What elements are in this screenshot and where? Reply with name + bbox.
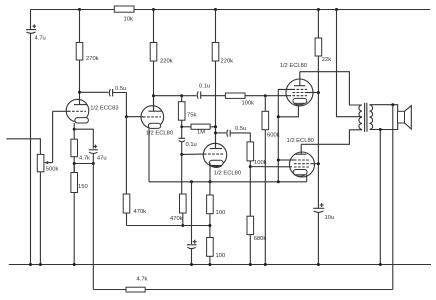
capacitor cathode bypass <box>191 182 193 244</box>
svg-text:0.5u: 0.5u <box>115 86 126 92</box>
node 100k bottom <box>249 165 252 168</box>
wire cap to tube2 grid node <box>113 93 127 117</box>
node tube2 anode <box>152 94 155 97</box>
svg-text:1M: 1M <box>197 130 205 136</box>
node top rail / 220k a <box>152 8 155 11</box>
node secondary bottom branch <box>379 128 382 131</box>
transformer T1 primary <box>359 105 362 129</box>
node top rail / B+ tap <box>335 8 338 11</box>
svg-text:270k: 270k <box>86 56 99 62</box>
speaker LS1 <box>398 111 405 123</box>
svg-text:100: 100 <box>216 253 226 259</box>
wire tube2 cathode drop <box>148 128 150 181</box>
node tube1 cathode <box>73 128 76 131</box>
wire ground bottom rail <box>9 264 431 266</box>
resistor 220k second <box>215 10 217 43</box>
node secondary top branch <box>391 103 394 106</box>
svg-text:470k: 470k <box>134 209 147 215</box>
resistor 220k first <box>153 10 155 43</box>
node inverter grid <box>180 153 183 156</box>
node screen a <box>317 91 320 94</box>
node secondary / rail <box>379 263 382 266</box>
svg-text:1/2 ECC83: 1/2 ECC83 <box>90 106 118 112</box>
wire to tube4 grid <box>265 95 291 97</box>
resistor 100k grid leak lower output tube <box>247 142 254 161</box>
svg-text:22k: 22k <box>322 57 331 63</box>
capacitor 0.1u coupling b <box>197 91 198 98</box>
wire secondary top <box>370 105 398 112</box>
tube pentode U5 1/2 ECL80 lower output <box>290 152 315 177</box>
node 600k / rail <box>264 263 267 266</box>
capacitor 47u <box>89 149 98 151</box>
wire input line <box>6 139 40 155</box>
svg-text:10u: 10u <box>325 215 335 221</box>
resistor 1M <box>182 126 191 128</box>
resistor 75k <box>178 102 185 121</box>
node tube1 anode <box>78 91 81 94</box>
wire tube5 grid lead <box>250 166 292 168</box>
wire tube3 grid lead <box>182 153 204 155</box>
node 0.5u junction on anode line <box>214 131 217 134</box>
resistor 100k horizontal <box>225 93 245 98</box>
tube triode U3 1/2 ECL80 inverter <box>203 143 226 166</box>
node 680k / rail <box>249 263 252 266</box>
node 1M right / tube3 anode <box>214 125 217 128</box>
svg-text:100k: 100k <box>254 160 267 166</box>
node output tubes cathode <box>277 180 280 183</box>
svg-text:10k: 10k <box>124 16 133 22</box>
node bypass cap top <box>190 180 193 183</box>
resistor 270k <box>79 10 81 43</box>
capacitor 0.5u coupling a <box>109 89 110 96</box>
wire tube5 suppressor tie <box>278 159 294 161</box>
wire tube5 anode to transformer <box>301 130 362 145</box>
wire cathode bus <box>149 181 307 183</box>
svg-text:100: 100 <box>216 210 226 216</box>
node tube4 cathode tie <box>277 115 280 118</box>
resistor 470k first (tube2 grid leak) <box>125 117 127 194</box>
resistor 4.7k cathode <box>73 129 75 139</box>
wire cathode node <box>74 129 93 148</box>
tube pentode U4 1/2 ECL80 upper output <box>286 79 313 106</box>
capacitor 4.7u electrolytic <box>26 29 36 31</box>
svg-text:4.7k: 4.7k <box>137 277 148 283</box>
node screen b <box>317 162 320 165</box>
wire tube4 suppressor tie <box>278 89 292 181</box>
node 100 / rail <box>208 263 211 266</box>
node 4.7k bottom <box>73 162 76 165</box>
node 100 junction <box>208 224 211 227</box>
svg-text:100k: 100k <box>242 100 255 106</box>
svg-text:0.1u: 0.1u <box>186 142 197 148</box>
tube triode U2 1/2 ECL80 <box>141 106 164 129</box>
node 1M left <box>180 125 183 128</box>
svg-text:1/2 ECL80: 1/2 ECL80 <box>214 171 241 177</box>
transformer T1 secondary <box>370 105 373 129</box>
resistor 150 <box>73 164 75 173</box>
node 150 / rail <box>73 263 76 266</box>
svg-text:75k: 75k <box>187 112 196 118</box>
svg-text:1/2 ECL80: 1/2 ECL80 <box>146 131 173 137</box>
wire B+ center tap line <box>337 10 363 117</box>
svg-text:220k: 220k <box>221 59 234 65</box>
node 470k second / bias wire <box>181 224 184 227</box>
capacitor 0.1u to inverter grid <box>179 137 186 139</box>
resistor 600k <box>264 96 266 112</box>
node tube2 grid <box>125 115 128 118</box>
svg-text:150: 150 <box>78 184 88 190</box>
svg-text:0.5u: 0.5u <box>235 126 246 132</box>
svg-text:4.7k: 4.7k <box>79 156 90 162</box>
node top rail / 220k b <box>214 8 217 11</box>
wire feedback line <box>93 289 126 291</box>
node 75k top <box>180 94 183 97</box>
capacitor 10u screen decoupling <box>313 207 324 209</box>
node tube3 cathode / 100 chain <box>209 180 212 183</box>
svg-text:1/2 ECL80: 1/2 ECL80 <box>280 63 307 69</box>
svg-text:220k: 220k <box>160 59 173 65</box>
wire B+ top rail <box>31 9 431 11</box>
capacitor 0.5u coupling c <box>216 132 227 134</box>
wire secondary bottom <box>370 123 398 130</box>
resistor 10k <box>114 6 134 12</box>
wire feedback riser <box>392 105 394 290</box>
node 47u bottom / feedback <box>92 162 95 165</box>
wire 75k node to cap <box>182 95 197 97</box>
resistor 470k second (inverter divider) <box>181 154 183 194</box>
wire tube4 cathode lead <box>278 105 298 117</box>
node top rail / 22k <box>317 8 320 11</box>
wire tube1 anode to coupling cap <box>80 91 109 93</box>
resistor 100 upper <box>209 182 211 195</box>
svg-text:1/2 ECL80: 1/2 ECL80 <box>287 138 314 144</box>
wire tube2 anode to 75k <box>154 95 182 97</box>
tube triode U1 1/2 ECC83 <box>66 99 89 122</box>
node top rail / 270k <box>78 8 81 11</box>
wire tube5 cathode lead <box>306 175 308 182</box>
resistor 100 lower <box>207 238 214 257</box>
node tube5 suppressor <box>277 159 280 162</box>
svg-text:500k: 500k <box>46 166 59 172</box>
wire tube4 screen tie <box>307 92 318 94</box>
wire tube4 anode to transformer <box>300 72 362 105</box>
wire cap to 100k <box>201 95 226 97</box>
wire bias line <box>127 225 210 227</box>
svg-text:4.7u: 4.7u <box>35 36 46 42</box>
node psu line / rail <box>29 263 32 266</box>
resistor 680k <box>249 167 251 217</box>
svg-text:470k: 470k <box>170 216 183 222</box>
node tube4 grid divider <box>264 94 267 97</box>
svg-text:0.1u: 0.1u <box>199 83 210 89</box>
potentiometer 500k <box>37 154 44 171</box>
wire cathode bottom link <box>74 163 93 165</box>
node bypass / rail <box>190 263 193 266</box>
resistor 4.7k feedback <box>126 287 145 292</box>
svg-text:47u: 47u <box>97 156 107 162</box>
node pot bottom / rail <box>39 263 42 266</box>
wire feedback drop <box>92 164 94 290</box>
resistor 22k <box>317 10 319 39</box>
wire secondary ground drop <box>379 130 381 265</box>
svg-text:680k: 680k <box>254 236 267 242</box>
node 10u / rail <box>317 263 320 266</box>
wire tube5 screen tie <box>312 163 318 165</box>
transformer T1 core <box>364 103 366 132</box>
wire left PSU branch with 4.7u <box>30 10 32 30</box>
